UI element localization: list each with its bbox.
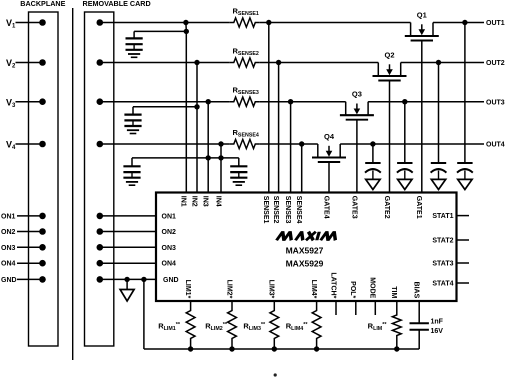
svg-text:SENSE3: SENSE3	[284, 196, 291, 224]
svg-text:IN3: IN3	[202, 196, 209, 207]
svg-text:LIM4*: LIM4*	[310, 280, 317, 299]
svg-text:OUT1: OUT1	[486, 20, 505, 27]
svg-text:LIM1*: LIM1*	[184, 280, 191, 299]
svg-text:GND: GND	[163, 277, 179, 284]
svg-text:MAX5927: MAX5927	[286, 246, 324, 256]
svg-text:SENSE2: SENSE2	[272, 196, 279, 224]
svg-text:SENSE1: SENSE1	[262, 196, 269, 224]
svg-text:Q4: Q4	[324, 132, 335, 141]
svg-text:MODE: MODE	[369, 277, 376, 298]
svg-text:OUT4: OUT4	[486, 142, 505, 149]
svg-text:LIM3*: LIM3*	[268, 280, 275, 299]
svg-text:1nF: 1nF	[431, 318, 444, 325]
svg-text:ON4: ON4	[162, 261, 177, 268]
svg-text:Q3: Q3	[352, 90, 362, 99]
svg-text:ON1: ON1	[1, 213, 16, 220]
svg-text:OUT3: OUT3	[486, 99, 505, 106]
svg-text:TIM: TIM	[390, 286, 397, 298]
svg-text:GND: GND	[1, 277, 17, 284]
svg-text:16V: 16V	[431, 328, 444, 335]
svg-text:GATE3: GATE3	[350, 196, 357, 219]
svg-text:ON4: ON4	[1, 261, 16, 268]
svg-text:Q2: Q2	[384, 51, 394, 60]
svg-text:SENSE4: SENSE4	[295, 196, 302, 224]
svg-text:IN2: IN2	[190, 196, 197, 207]
svg-text:ON2: ON2	[1, 229, 16, 236]
svg-text:IN4: IN4	[214, 196, 221, 207]
svg-text:BIAS: BIAS	[413, 282, 420, 299]
svg-text:POL*: POL*	[349, 281, 356, 298]
svg-text:ON3: ON3	[1, 245, 16, 252]
svg-text:MAX5929: MAX5929	[286, 258, 324, 268]
svg-text:GATE2: GATE2	[383, 196, 390, 219]
svg-text:Q1: Q1	[417, 11, 427, 20]
svg-text:STAT4: STAT4	[432, 281, 453, 288]
svg-text:ON3: ON3	[162, 245, 177, 252]
svg-text:OUT2: OUT2	[486, 60, 505, 67]
svg-text:REMOVABLE CARD: REMOVABLE CARD	[83, 0, 151, 8]
svg-text:LIM2*: LIM2*	[225, 280, 232, 299]
svg-text:BACKPLANE: BACKPLANE	[20, 0, 65, 8]
svg-text:STAT2: STAT2	[432, 238, 453, 245]
svg-text:GATE1: GATE1	[415, 196, 422, 219]
svg-text:ON1: ON1	[162, 213, 177, 220]
svg-text:STAT1: STAT1	[432, 213, 453, 220]
svg-text:GATE4: GATE4	[322, 196, 329, 219]
svg-text:ON2: ON2	[162, 229, 177, 236]
svg-text:STAT3: STAT3	[432, 261, 453, 268]
svg-text:IN1: IN1	[180, 196, 187, 207]
svg-text:LATCH*: LATCH*	[329, 272, 336, 298]
